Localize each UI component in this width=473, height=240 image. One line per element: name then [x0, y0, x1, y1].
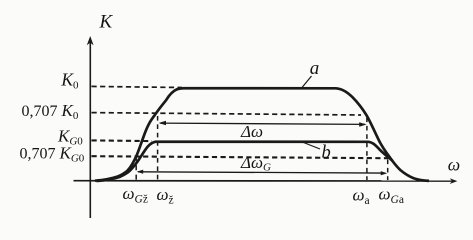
- svg-text:Δω: Δω: [240, 122, 263, 141]
- svg-text:a: a: [310, 58, 320, 79]
- delta omega arrow: [160, 123, 365, 124]
- omega_Ga dashed vertical: [387, 160, 389, 181]
- svg-text:0,707 K0: 0,707 K0: [22, 101, 79, 122]
- x-axis arrowhead: [450, 178, 458, 184]
- y-axis: [89, 42, 91, 218]
- leader line to label a: [302, 76, 312, 88]
- K0 dashed level: [92, 86, 183, 87]
- leader line to label b: [304, 143, 321, 150]
- svg-text:K: K: [99, 12, 114, 33]
- svg-text:b: b: [322, 143, 331, 163]
- omega_a dashed vertical: [366, 118, 368, 181]
- omega_Gz dashed vertical: [135, 156, 137, 180]
- curve a: [95, 88, 429, 181]
- curve b: [97, 142, 393, 181]
- delta omega G arrow: [138, 172, 386, 173]
- svg-text:ω: ω: [448, 154, 460, 174]
- omega_z dashed vertical: [157, 116, 159, 180]
- 0.707 K0 dashed level: [92, 113, 362, 115]
- 0.707 KG0 dashed level: [92, 156, 389, 158]
- KG0 dashed level: [92, 139, 153, 142]
- x-axis: [74, 180, 454, 182]
- y-axis arrowhead: [87, 36, 94, 45]
